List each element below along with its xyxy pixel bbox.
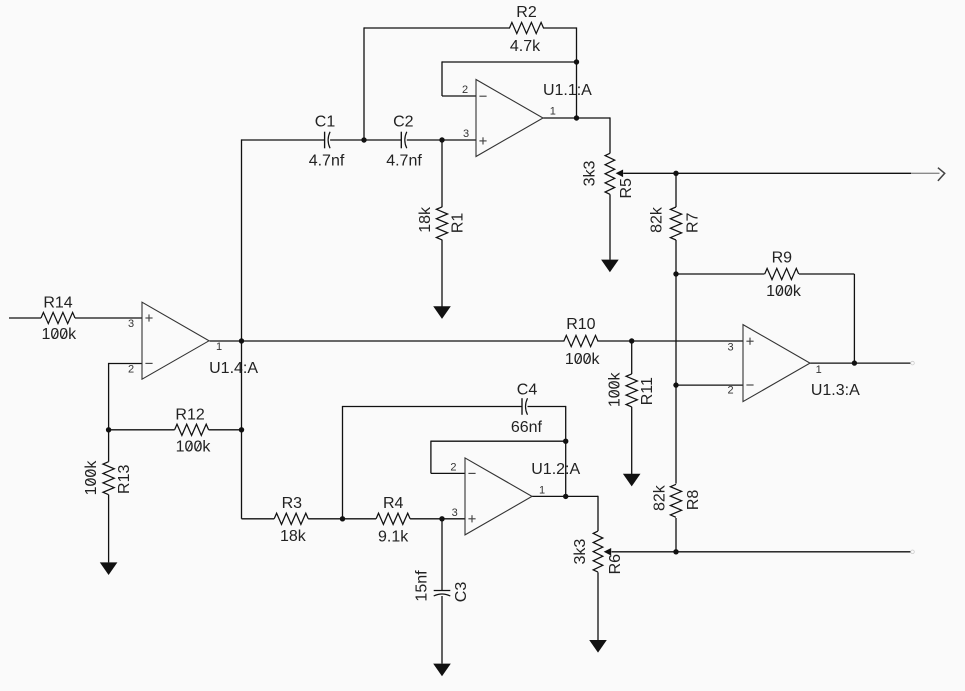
ground below R1 — [433, 306, 451, 319]
svg-text:3: 3 — [128, 318, 134, 330]
wire U1.4 pin 2 down — [108, 363, 110, 430]
wire R11 top lead — [631, 341, 633, 374]
wire U1.1 output — [543, 117, 610, 119]
node R12/R13 junction — [106, 427, 111, 432]
wire R1 top lead — [441, 140, 443, 207]
node C2/R1/U1.1 pin3 junction — [439, 137, 444, 142]
wire U1.1 pin 2 stub — [442, 95, 476, 97]
op-amp U1.1 pin 3 label — [463, 128, 487, 145]
wire C3 bottom lead — [441, 596, 443, 664]
svg-text:1: 1 — [539, 484, 545, 496]
op-amp U1.2 — [465, 458, 580, 535]
svg-text:3k3: 3k3 — [581, 161, 598, 187]
svg-text:R10: R10 — [566, 316, 595, 333]
resistor R7 82k — [649, 206, 702, 240]
svg-text:U1.4:A: U1.4:A — [209, 360, 258, 377]
wire U1.4 pin 2 stub — [109, 363, 142, 365]
wire R12 left lead — [109, 429, 175, 431]
resistor R1 18k — [417, 206, 466, 240]
resistor R13 100k — [83, 460, 133, 496]
wire U1.4 output row — [210, 340, 565, 342]
wire U1.2 pin 2 stub — [431, 472, 465, 474]
node bus R6 row junction — [673, 549, 678, 554]
svg-text:R5: R5 — [618, 178, 635, 199]
off-page arrow head — [938, 168, 945, 181]
svg-text:2: 2 — [462, 84, 468, 96]
wire C4 left — [342, 406, 522, 408]
node U1.4 output junction — [239, 338, 244, 343]
wire R11 bottom lead — [631, 407, 633, 474]
wire U1.3 pin 2 stub — [676, 384, 743, 386]
op-amp U1.2 pin 3 label — [452, 507, 476, 523]
svg-text:2: 2 — [727, 385, 733, 397]
node U1.2 feedback/C4 junction — [563, 439, 568, 444]
wire C4 right — [528, 406, 566, 408]
op-amp U1.4 — [142, 302, 258, 379]
svg-text:R8: R8 — [685, 490, 702, 511]
wire down to R5 — [609, 117, 611, 153]
node R10/R11 junction — [629, 338, 634, 343]
svg-text:3: 3 — [452, 507, 458, 519]
svg-text:9.1k: 9.1k — [378, 529, 409, 546]
svg-text:100k: 100k — [83, 460, 100, 496]
wire R13 top lead — [108, 430, 110, 462]
node R5 wiper bus junction — [673, 171, 678, 176]
wire R9 right lead — [799, 273, 854, 275]
capacitor C3 15nf — [414, 570, 470, 602]
svg-text:R9: R9 — [772, 250, 793, 267]
svg-text:R2: R2 — [516, 4, 537, 21]
wire bus bottom segment — [675, 518, 677, 552]
svg-text:100k: 100k — [607, 371, 624, 407]
open end marker U1.3 output — [911, 361, 915, 365]
wire U1.3 output — [810, 362, 911, 364]
wire C1 to C2 — [330, 139, 401, 141]
capacitor C4 66nf — [511, 382, 543, 436]
svg-text:66nf: 66nf — [511, 419, 543, 436]
svg-text:R3: R3 — [282, 495, 303, 512]
wire U1.2 feedback vertical — [430, 441, 432, 474]
wire R5 wiper row — [623, 172, 911, 174]
svg-text:18k: 18k — [417, 206, 434, 233]
wire C2 to U1.1 pin 3 — [407, 139, 476, 141]
svg-text:C3: C3 — [453, 582, 470, 603]
wire gray off-page segment — [911, 172, 940, 174]
wire R1 bottom lead — [441, 240, 443, 307]
svg-text:82k: 82k — [649, 206, 666, 233]
wire R4 to U1.2 pin 3 — [410, 518, 465, 520]
wire U1.1 feedback top — [442, 61, 577, 63]
wire vertical C1 node to top row — [363, 27, 365, 140]
svg-text:100k: 100k — [565, 351, 601, 368]
svg-text:R11: R11 — [639, 377, 656, 405]
wire R3 left lead — [242, 518, 275, 520]
svg-text:C4: C4 — [517, 382, 538, 399]
op-amp U1.3 pin 2 label — [727, 385, 753, 397]
svg-text:3: 3 — [463, 128, 469, 140]
svg-text:2: 2 — [450, 462, 456, 474]
ground below R5 — [601, 260, 619, 273]
ground below C3 — [433, 664, 451, 677]
svg-text:3: 3 — [727, 342, 733, 354]
node U1.1 output junction — [574, 115, 579, 120]
svg-text:1: 1 — [550, 106, 556, 118]
resistor R11 100k — [607, 371, 656, 407]
wire C4 node down to U1.2 output — [565, 406, 567, 497]
wire R3 to R4 — [308, 518, 376, 520]
op-amp U1.4 pin 1 label — [216, 341, 222, 353]
wire U1.2 output — [532, 495, 598, 497]
trimmer R6 3k3 — [572, 531, 624, 574]
op-amp U1.1 — [476, 80, 592, 157]
svg-text:4.7nf: 4.7nf — [309, 152, 345, 169]
resistor R9 100k — [765, 250, 802, 300]
resistor R4 9.1k — [376, 495, 410, 546]
svg-text:R12: R12 — [175, 407, 204, 424]
node R9/U1.3 output junction — [852, 360, 857, 365]
wire R14 to U1.4 pin 3 — [75, 317, 142, 319]
wire R10 junction to U1.3 pin 3 — [632, 340, 743, 342]
wire R9 left lead — [676, 273, 765, 275]
resistor R12 100k — [175, 407, 212, 456]
wire C3 top lead — [441, 519, 443, 591]
svg-text:100k: 100k — [176, 438, 212, 455]
op-amp U1.3 — [743, 325, 860, 402]
svg-text:1: 1 — [816, 364, 822, 376]
svg-text:R7: R7 — [685, 212, 702, 233]
open end marker R6 row — [911, 550, 915, 554]
wire R13 bottom lead — [108, 495, 110, 563]
capacitor C1 4.7nf — [309, 114, 345, 170]
svg-text:R14: R14 — [43, 294, 72, 311]
node feedback junction at top vertical — [574, 59, 579, 64]
node R3/R4 riser junction — [340, 516, 345, 521]
node R4/C3/U1.2 pin3 junction — [439, 516, 444, 521]
wire down to R6 — [597, 496, 599, 531]
svg-text:R6: R6 — [607, 554, 624, 575]
op-amp U1.2 pin 1 label — [539, 484, 545, 496]
resistor R2 4.7k — [510, 4, 544, 55]
wire riser to C4 — [342, 407, 344, 520]
svg-text:R1: R1 — [450, 213, 467, 234]
op-amp U1.3 pin 1 label — [816, 364, 822, 376]
wire R6 bottom lead — [597, 572, 599, 640]
resistor R3 18k — [274, 495, 308, 545]
svg-text:U1.1:A: U1.1:A — [543, 82, 592, 99]
trimmer R5 3k3 — [581, 153, 635, 198]
resistor R14 100k — [41, 294, 77, 343]
wire R6 wiper row — [612, 551, 912, 553]
svg-text:U1.2:A: U1.2:A — [531, 461, 580, 478]
node R12 right junction — [239, 427, 244, 432]
node C1/C2 junction — [361, 137, 366, 142]
ground below R13 — [100, 562, 118, 575]
node U1.2 output junction — [563, 494, 568, 499]
wire U1.1 feedback vertical — [441, 61, 443, 96]
svg-text:U1.3:A: U1.3:A — [811, 382, 860, 399]
wire R10 right lead — [597, 340, 631, 342]
op-amp U1.1 pin 1 label — [550, 106, 556, 118]
wire R12 right lead — [209, 429, 242, 431]
op-amp U1.3 pin 3 label — [727, 338, 753, 354]
svg-text:2: 2 — [128, 364, 134, 376]
svg-text:18k: 18k — [280, 528, 307, 545]
resistor R10 100k — [564, 316, 601, 368]
resistor R8 82k — [651, 484, 702, 517]
wire R9 down to U1.3 output — [853, 274, 855, 363]
wire R14 left lead — [9, 317, 41, 319]
svg-text:C1: C1 — [315, 114, 336, 131]
node R7/R9 junction — [673, 271, 678, 276]
wire C1 row left — [242, 139, 325, 141]
op-amp U1.4 pin 3 label — [128, 314, 153, 330]
wire R5 bottom lead — [609, 194, 611, 259]
wire main left vertical — [241, 139, 243, 518]
svg-text:100k: 100k — [41, 326, 77, 343]
wire right vertical from R2 to U1.1 output — [576, 27, 578, 118]
capacitor C2 4.7nf — [386, 114, 422, 170]
svg-text:100k: 100k — [766, 283, 802, 300]
wire bus top segment — [675, 173, 677, 207]
op-amp U1.4 pin 2 label — [128, 363, 153, 375]
svg-text:3k3: 3k3 — [572, 539, 589, 565]
node bus U1.3 pin2 junction — [673, 382, 678, 387]
wire U1.2 feedback top — [431, 440, 566, 442]
wire bus middle segment — [675, 240, 677, 484]
svg-text:4.7k: 4.7k — [510, 38, 541, 55]
svg-text:R4: R4 — [383, 495, 404, 512]
svg-text:1: 1 — [216, 341, 222, 353]
wire top row right of R2 — [543, 27, 577, 29]
svg-text:R13: R13 — [116, 465, 133, 494]
op-amp U1.2 pin 2 label — [450, 462, 475, 474]
ground below R11 — [623, 474, 641, 487]
wire top row left of R2 — [364, 27, 510, 29]
op-amp U1.1 pin 2 label — [462, 84, 487, 96]
svg-text:4.7nf: 4.7nf — [386, 153, 422, 170]
svg-text:15nf: 15nf — [414, 570, 431, 602]
ground below R6 — [589, 640, 607, 653]
svg-text:82k: 82k — [651, 484, 668, 511]
svg-text:C2: C2 — [393, 114, 414, 131]
